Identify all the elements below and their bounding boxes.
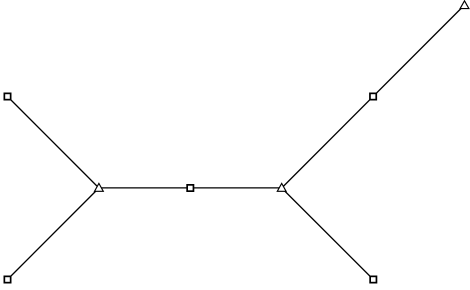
wire S2-T1 — [8, 188, 99, 280]
node S1 square — [4, 93, 10, 99]
node T2 triangle — [277, 183, 286, 191]
node S4 square — [370, 93, 376, 99]
node S3 square — [187, 185, 193, 191]
node T1 triangle — [95, 183, 104, 191]
node T3 triangle — [460, 1, 469, 9]
node S5 square — [370, 276, 376, 282]
wire T2-S5 — [282, 188, 374, 280]
node S2 square — [4, 276, 10, 282]
wire S1-T1 — [8, 97, 99, 189]
wire T1-T2 horizontal — [99, 187, 282, 189]
wire T2-S4-T3 — [282, 5, 465, 188]
